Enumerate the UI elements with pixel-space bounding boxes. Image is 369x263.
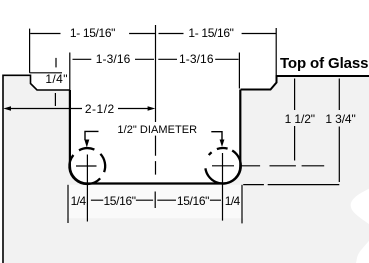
svg-text:1/4: 1/4 (71, 194, 87, 208)
1/4 step dimension horizontal line (30, 72, 63, 74)
right hole center vertical line (222, 153, 224, 221)
glass body (gray fill with wavy broken right edge) (3, 75, 369, 263)
dim extension line: right end of 1-3/16 (notch right edge) (238, 53, 240, 89)
left leader arrowhead (84, 140, 89, 148)
notch outline (thick) (70, 90, 240, 184)
bottom dim tick: center (154, 192, 156, 209)
svg-text:1-3/16: 1-3/16 (179, 52, 214, 66)
center line dashed part through notch (155, 136, 157, 175)
right hole center line dashed extension to right (239, 165, 324, 167)
bottom dim tick: notch right edge (241, 185, 243, 224)
svg-text:1- 15/16": 1- 15/16" (70, 26, 115, 40)
glass outer profile outline (right part, top of glass edge) (241, 76, 369, 90)
svg-text:1 1/2": 1 1/2" (285, 112, 315, 126)
svg-text:Top of Glass: Top of Glass (280, 55, 368, 72)
svg-text:1 3/4": 1 3/4" (325, 112, 355, 126)
bottom dim tick: notch left edge (67, 185, 69, 223)
svg-text:1/2" DIAMETER: 1/2" DIAMETER (117, 124, 197, 136)
2-1/2 dimension line with arrows (10, 108, 148, 110)
white band under notch (dimension strip) (67, 185, 244, 219)
right leader hook to hole (211, 132, 222, 140)
svg-text:1/4: 1/4 (225, 194, 241, 208)
hole circle left (1/2 dia) (69, 148, 105, 184)
dimension line 1-3/16 right segments (158, 58, 238, 60)
hole circle right (1/2 dia) (205, 148, 240, 184)
1/4 step dimension tick below (54, 93, 56, 106)
1 3/4 depth dimension vertical segments (338, 79, 340, 183)
bottom dim line segments left 15/16 (91, 199, 153, 201)
bottom dim line segments right 15/16 (157, 199, 221, 201)
left hole crosshair horizontal (76, 165, 97, 167)
svg-text:2-1/2: 2-1/2 (85, 102, 115, 116)
dim extension line: left end of 1-15/16 (at step corner) (29, 29, 31, 73)
1 1/2 depth dimension vertical segments (294, 79, 296, 161)
2-1/2 left arrowhead (3, 106, 11, 111)
glass outer profile outline (left part) (3, 75, 70, 263)
center line of slot (vertical) (155, 25, 157, 122)
dim extension line: right end of 1-15/16 (at right step corner) (275, 28, 277, 76)
dimension line 1-3/16 left segments (73, 58, 155, 60)
dimension line 1-15/16 left segments (30, 33, 155, 35)
dim extension line: left end of 1-3/16 (notch left edge) (69, 53, 71, 91)
dimension line 1-15/16 right segments (159, 33, 277, 35)
2-1/2 right arrowhead (148, 106, 156, 111)
right leader arrowhead (220, 140, 225, 148)
left leader hook to hole (85, 131, 99, 140)
svg-text:1-3/16: 1-3/16 (96, 52, 131, 66)
notch bottom extension line to right (243, 184, 339, 186)
svg-text:15/16": 15/16" (177, 194, 209, 208)
left hole center vertical line (86, 155, 88, 222)
svg-text:15/16": 15/16" (103, 194, 135, 208)
right hole crosshair horizontal (212, 165, 234, 167)
svg-text:1- 15/16": 1- 15/16" (188, 26, 233, 40)
1/4 step dimension tick above (55, 58, 57, 68)
svg-text:1/4": 1/4" (45, 72, 68, 86)
